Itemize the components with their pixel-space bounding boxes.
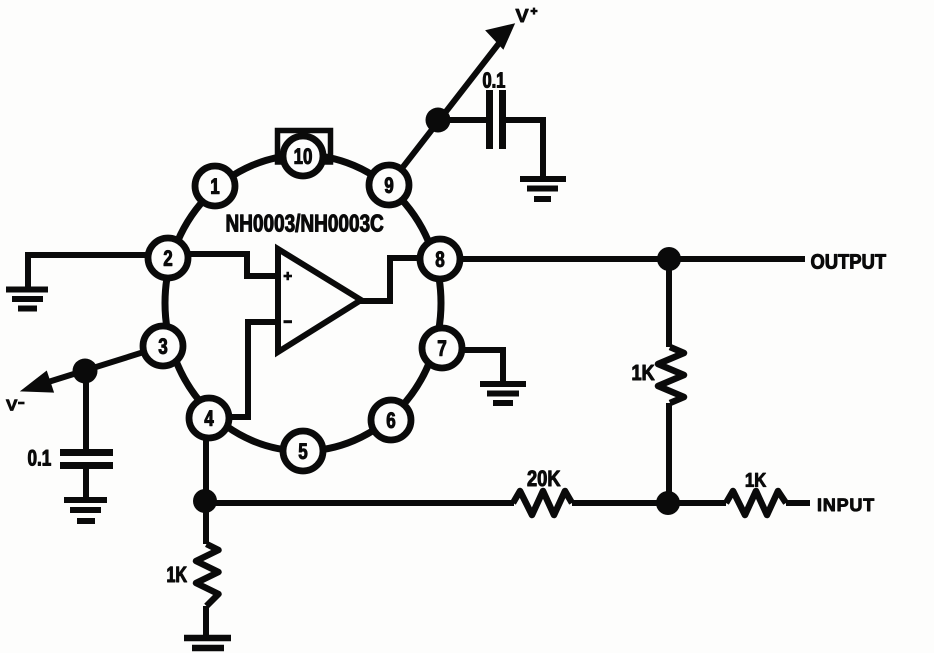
pin 6 number <box>387 412 395 428</box>
resistor R4 1K vertical to ground <box>196 544 219 606</box>
wire J1 down to R1 <box>666 259 672 347</box>
pin 1 number <box>211 179 219 194</box>
wire J2 to capacitor C1 <box>438 117 486 123</box>
pin 10 number <box>295 148 312 164</box>
label U1 NH0003/NH0003C <box>227 214 383 232</box>
wire pin 8 to OUTPUT <box>461 256 805 262</box>
op-amp + input mark <box>284 272 293 281</box>
pin 8 circle <box>420 239 460 279</box>
pin 9 circle <box>369 165 409 205</box>
resistor R3 1K horizontal <box>726 491 786 515</box>
pin 3 number <box>159 338 167 354</box>
V+ superscript plus mark <box>531 8 538 15</box>
pin 5 circle <box>283 431 323 471</box>
wire op-amp output to pin 8 <box>358 258 420 301</box>
wire pin 7 to ground GND5 <box>462 350 503 381</box>
wire R3 to INPUT <box>786 500 810 506</box>
label C1 value 0.1 <box>483 72 505 88</box>
tab notch at pin 10 <box>278 131 331 163</box>
wire op-amp - input to pin4 <box>228 322 276 417</box>
pin 5 number <box>299 444 307 460</box>
resistor R2 20K horizontal <box>513 491 572 515</box>
label R1 value 1K <box>633 365 655 380</box>
ground GND2 (V+ bypass) <box>520 179 566 199</box>
node junction J5 on input line <box>656 491 680 515</box>
pin 4 circle <box>189 398 229 438</box>
op-amp U1 triangle <box>278 249 361 352</box>
label R4 value 1K <box>168 567 187 582</box>
ground GND5 (pin 7) <box>480 384 526 403</box>
wire R4 to ground GND4 <box>203 606 209 635</box>
pin 9 number <box>385 177 393 193</box>
label V+ <box>516 9 529 22</box>
label OUTPUT <box>811 254 886 269</box>
resistor R1 1K vertical <box>658 347 684 403</box>
wire pin2 to op-amp + input <box>186 254 276 276</box>
pin 7 circle <box>422 328 462 368</box>
pin 1 circle <box>195 166 235 206</box>
wire J4 to 20K resistor <box>205 500 514 506</box>
op-amp - input mark <box>284 320 293 323</box>
pin 2 number <box>164 250 172 265</box>
capacitor C1 0.1 plates <box>490 90 503 149</box>
wire pin 3 to V- <box>45 346 163 383</box>
pin 3 circle <box>143 326 183 366</box>
ground GND1 (left of pin 2) <box>6 290 48 309</box>
ground GND3 (V- bypass) <box>64 500 107 521</box>
label R2 value 20K <box>528 470 561 486</box>
wire J3 down to capacitor C2 <box>83 371 89 449</box>
pin 7 number <box>438 341 446 356</box>
label C2 value 0.1 <box>28 450 51 466</box>
label V- <box>6 400 17 411</box>
capacitor C2 0.1 plates <box>60 453 113 466</box>
wire pin 9 to V+ <box>389 42 500 185</box>
node junction J2 on V+ line <box>426 108 451 133</box>
node junction J4 below pin 4 <box>193 489 217 513</box>
pin 8 number <box>436 251 444 267</box>
V- superscript minus mark <box>18 402 25 405</box>
wire C1 to ground GND2 <box>506 120 543 177</box>
pin 6 circle <box>371 400 411 440</box>
wire 20K to node J5 <box>572 500 726 506</box>
wire C2 to ground GND3 <box>83 465 89 497</box>
pin 4 number <box>205 411 214 426</box>
pin 10 circle <box>283 136 323 176</box>
IC can outline U1 <box>165 155 441 451</box>
wire pin2 to left ground <box>28 255 150 288</box>
wire pin 4 down to node J4 <box>203 437 209 544</box>
node junction J3 on V- line <box>73 359 98 384</box>
label R3 value 1K <box>746 473 766 487</box>
node junction J1 on output line <box>657 247 681 271</box>
V+ arrowhead <box>488 25 514 48</box>
pin 2 circle <box>148 238 188 278</box>
label INPUT <box>818 499 874 512</box>
V- arrowhead <box>24 373 52 391</box>
ground GND4 (bottom) <box>184 638 231 648</box>
wire R1 bottom to node J5 <box>666 403 672 503</box>
